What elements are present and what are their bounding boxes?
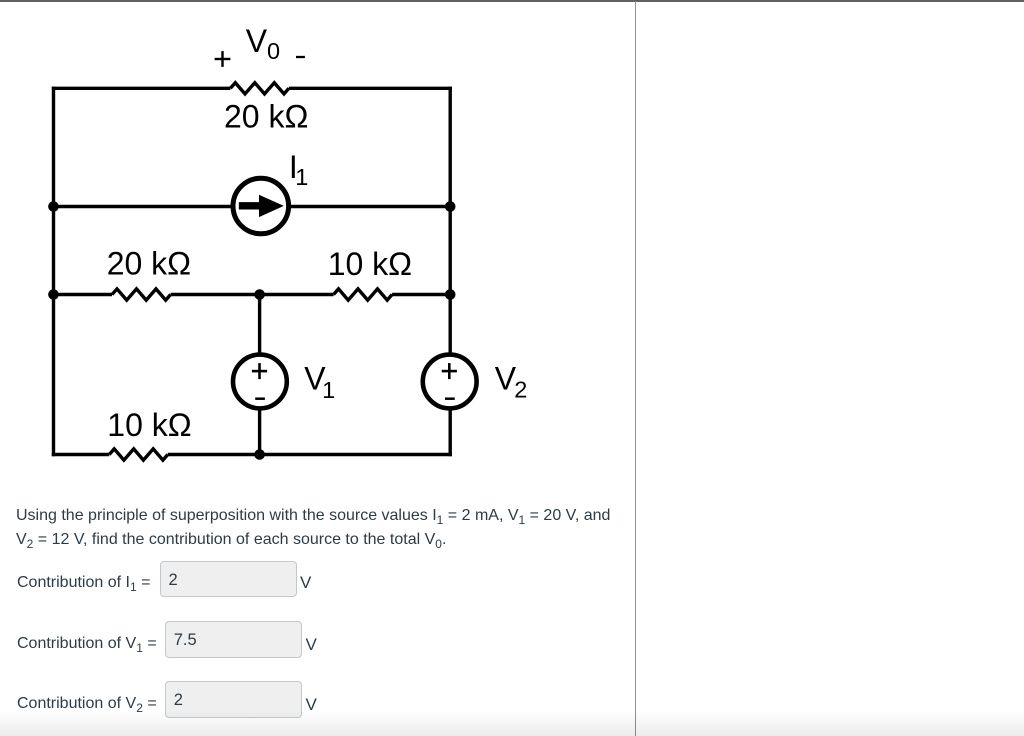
current source I1 circle [233, 178, 289, 234]
wire: left vertical rail [52, 87, 55, 457]
voltage source V1 minus sign [255, 397, 265, 400]
wire: row2 left segment to current source [54, 205, 234, 208]
answer row 3 label [17, 695, 157, 713]
wire: right vertical rail (below V2) [449, 409, 452, 456]
answer row 3 input box [165, 681, 302, 718]
answer row 2 label [17, 635, 157, 653]
label V0 minus polarity mark [296, 56, 305, 58]
wire: row3 left segment [54, 293, 113, 296]
answer row 1 input box [160, 561, 298, 597]
bottom fade [0, 710, 1024, 736]
node: row3 right junction [445, 289, 456, 300]
wire: right vertical rail (upper part, above V2) [449, 87, 452, 354]
svg-text:10 kΩ: 10 kΩ [107, 407, 191, 443]
node: row2 left junction [48, 201, 59, 212]
resistor 10 kOhm (bottom) zigzag [109, 449, 168, 460]
voltage source V1 plus sign [252, 363, 267, 379]
circuit schematic [0, 0, 640, 500]
node: row3 middle junction [254, 289, 265, 300]
wire: middle branch upper segment [258, 295, 261, 355]
node: row3 left junction [48, 289, 59, 300]
wire: row2 right segment from current source [289, 205, 451, 208]
svg-text:2: 2 [514, 377, 527, 403]
vertical divider between panes [635, 1, 636, 736]
voltage source V2 minus sign [445, 397, 455, 400]
svg-text:10 kΩ: 10 kΩ [328, 246, 412, 282]
answer row 1 unit [300, 573, 311, 593]
wire: bottom right segment [168, 453, 452, 456]
node: row2 right junction [445, 201, 456, 212]
answer row 1 label [17, 574, 150, 592]
svg-text:1: 1 [295, 164, 308, 190]
svg-text:V: V [246, 23, 268, 59]
current source I1 arrow [239, 195, 284, 217]
top page border [0, 0, 1024, 2]
answer row 2 unit [306, 635, 317, 655]
wire: bottom left segment [52, 453, 110, 456]
wire: top left segment [52, 87, 231, 90]
voltage source V1 circle [233, 355, 287, 409]
label V0 plus polarity mark [215, 51, 231, 67]
resistor 20 kOhm (top) zigzag [230, 83, 289, 94]
voltage source V2 plus sign [442, 363, 457, 379]
question paragraph [16, 504, 624, 552]
svg-text:0: 0 [267, 38, 280, 64]
node: bottom middle junction [254, 449, 265, 460]
wire: middle branch lower segment [258, 408, 261, 454]
answer row 3 unit [306, 695, 317, 715]
svg-text:20 kΩ: 20 kΩ [224, 99, 308, 135]
wire: top right segment [289, 87, 452, 90]
svg-text:1: 1 [322, 377, 335, 403]
svg-text:20 kΩ: 20 kΩ [107, 246, 191, 282]
resistor 20 kOhm (middle left) zigzag [112, 289, 171, 300]
resistor 10 kOhm (middle right) zigzag [334, 289, 393, 300]
answer row 2 input box [165, 621, 302, 658]
wire: row3 right segment [392, 293, 450, 296]
wire: row3 middle segment [171, 293, 334, 296]
voltage source V2 circle [423, 355, 477, 409]
